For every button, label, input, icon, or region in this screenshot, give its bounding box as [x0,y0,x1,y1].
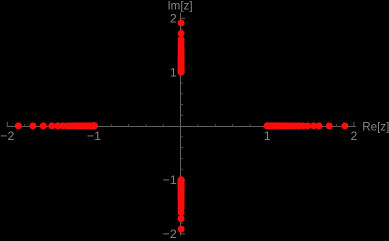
y-axis major ticks [181,18,186,234]
x axis (Re) [7,126,356,128]
svg-text:2: 2 [350,129,357,143]
svg-text:−1: −1 [163,173,177,187]
svg-text:−2: −2 [163,227,177,241]
y axis (Im) [180,12,182,235]
red points on positive imaginary axis [178,20,185,76]
svg-text:1: 1 [264,129,271,143]
red points on positive real axis [264,122,349,129]
svg-text:−2: −2 [0,129,14,143]
red points on negative real axis [15,122,98,129]
red points on negative imaginary axis [178,176,185,232]
svg-text:1: 1 [170,65,177,79]
y-axis minor ticks [181,29,184,223]
svg-text:2: 2 [170,12,177,26]
svg-text:Re[z]: Re[z] [362,120,389,133]
x-axis minor ticks [25,124,337,127]
svg-text:−1: −1 [87,129,101,143]
x-axis major ticks [7,122,354,127]
svg-text:Im[z]: Im[z] [167,0,192,12]
